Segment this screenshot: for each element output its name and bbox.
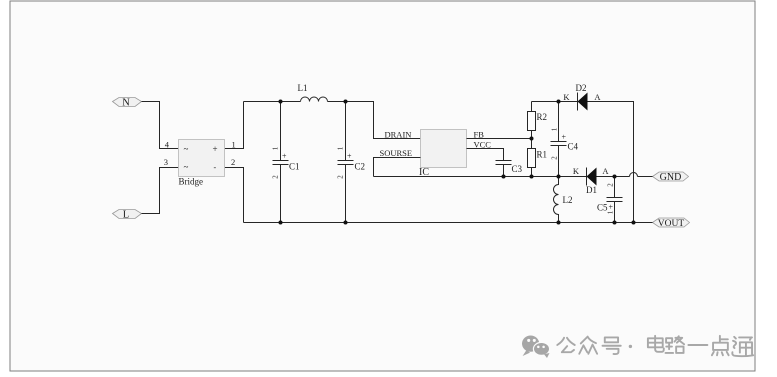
wire N to bridge pin 4 bbox=[142, 102, 179, 149]
svg-text:-: - bbox=[214, 163, 217, 172]
glyph tong bbox=[732, 337, 753, 356]
bottom rail bbox=[244, 222, 653, 224]
svg-text:D1: D1 bbox=[586, 185, 597, 195]
wire top rail left of L1 bbox=[244, 101, 301, 103]
svg-text:A: A bbox=[602, 166, 609, 176]
svg-text:~: ~ bbox=[184, 144, 189, 154]
diode D2 bbox=[563, 83, 601, 111]
capacitor C4 bbox=[551, 102, 579, 177]
junction FB node bbox=[530, 137, 534, 141]
svg-text:R2: R2 bbox=[537, 112, 548, 122]
resistor R1 bbox=[528, 149, 548, 168]
net flag N bbox=[113, 97, 142, 108]
wire FB to R divider bbox=[467, 138, 532, 140]
resistor R2 bbox=[528, 112, 548, 131]
glyph gong bbox=[557, 338, 574, 352]
wire SOURSE to switch-node rail bbox=[374, 158, 421, 177]
wire hop over output column bbox=[630, 173, 638, 177]
bridge rectifier Bridge bbox=[179, 140, 225, 187]
wire FB node to R1 bbox=[531, 139, 533, 149]
junction C1 bottom bbox=[279, 221, 283, 225]
svg-text:1: 1 bbox=[551, 127, 559, 131]
svg-text:2: 2 bbox=[337, 175, 345, 179]
wire L to bridge pin 3 bbox=[142, 168, 179, 214]
watermark text 公众号 · 电路一点通 bbox=[557, 336, 753, 356]
svg-text:L2: L2 bbox=[563, 195, 573, 205]
wire D2 anode to output column bbox=[588, 102, 634, 223]
junction C1 top bbox=[279, 100, 283, 104]
IC U1 bbox=[419, 130, 467, 179]
capacitor C1 bbox=[272, 102, 300, 223]
svg-text:D2: D2 bbox=[576, 83, 587, 93]
wire top rail corner to R2 bbox=[531, 102, 533, 112]
svg-text:2: 2 bbox=[272, 175, 280, 179]
svg-text:+: + bbox=[213, 144, 218, 154]
svg-text:K: K bbox=[573, 166, 580, 176]
wire R1 to switch rail bbox=[531, 168, 533, 177]
watermark wechat icon bbox=[522, 336, 550, 359]
svg-text:1: 1 bbox=[337, 146, 345, 150]
wire bridge pin 1 to top rail bbox=[225, 102, 244, 149]
svg-text:C2: C2 bbox=[355, 162, 366, 172]
net flag VOUT bbox=[653, 218, 690, 229]
svg-text:+: + bbox=[347, 152, 352, 161]
svg-text:VOUT: VOUT bbox=[658, 219, 685, 229]
junction output column bottom bbox=[632, 221, 636, 225]
wire D1 anode to C5 node bbox=[597, 176, 630, 178]
svg-text:2: 2 bbox=[231, 157, 235, 167]
wire VCC to C3 bbox=[467, 149, 504, 161]
svg-text:R1: R1 bbox=[537, 150, 548, 160]
svg-text:2: 2 bbox=[607, 183, 615, 187]
wire hop to GND flag bbox=[638, 176, 653, 178]
junction C5 bottom bbox=[613, 221, 617, 225]
glyph zhong bbox=[579, 337, 597, 354]
junction L2 top bbox=[557, 175, 561, 179]
junction C3 bottom bbox=[502, 175, 506, 179]
svg-text:N: N bbox=[122, 97, 130, 108]
svg-text:DRAIN: DRAIN bbox=[385, 130, 412, 140]
wire R2 to FB node bbox=[531, 131, 533, 139]
glyph hao bbox=[603, 337, 621, 354]
glyph dian bbox=[648, 336, 664, 352]
junction R1 bottom bbox=[530, 175, 534, 179]
glyph lu bbox=[666, 336, 685, 353]
wire bridge pin 2 to bottom rail bbox=[225, 168, 244, 223]
wire top rail right of L1 to DRAIN bbox=[328, 102, 421, 139]
svg-text:+: + bbox=[282, 152, 287, 161]
capacitor C2 bbox=[337, 102, 366, 223]
svg-text:C1: C1 bbox=[289, 162, 300, 172]
svg-text:A: A bbox=[594, 92, 601, 102]
glyph yi bbox=[688, 340, 707, 350]
svg-text:1: 1 bbox=[272, 146, 280, 150]
svg-text:2: 2 bbox=[551, 156, 559, 160]
svg-text:SOURSE: SOURSE bbox=[380, 148, 413, 158]
net flag L bbox=[113, 209, 142, 220]
svg-text:K: K bbox=[563, 92, 570, 102]
svg-text:L1: L1 bbox=[298, 83, 308, 93]
inductor L2 bbox=[554, 177, 573, 223]
diode D1 bbox=[573, 166, 610, 195]
svg-text:1: 1 bbox=[607, 210, 615, 214]
capacitor C5 bbox=[597, 177, 623, 223]
svg-text:GND: GND bbox=[660, 172, 682, 183]
inductor L1 bbox=[298, 83, 328, 102]
junction C2 bottom bbox=[344, 221, 348, 225]
capacitor C3 bbox=[496, 161, 523, 177]
net flag GND bbox=[653, 172, 689, 183]
junction C4 top bbox=[557, 100, 561, 104]
svg-text:C3: C3 bbox=[512, 164, 523, 174]
svg-text:3: 3 bbox=[164, 157, 168, 167]
svg-text:+: + bbox=[609, 203, 614, 212]
svg-text:C4: C4 bbox=[568, 142, 579, 152]
junction L2 bottom bbox=[557, 221, 561, 225]
svg-text:L: L bbox=[123, 209, 129, 220]
glyph dian2 bbox=[712, 336, 729, 355]
switch node rail bbox=[374, 176, 587, 178]
junction C2 top bbox=[344, 100, 348, 104]
svg-text:+: + bbox=[562, 133, 567, 142]
wire top rail to D2 cathode bbox=[532, 101, 578, 103]
junction C5 top bbox=[613, 175, 617, 179]
svg-text:Bridge: Bridge bbox=[179, 177, 204, 187]
middle dot bbox=[629, 345, 632, 348]
svg-text:1: 1 bbox=[232, 140, 236, 150]
svg-text:~: ~ bbox=[184, 162, 189, 172]
